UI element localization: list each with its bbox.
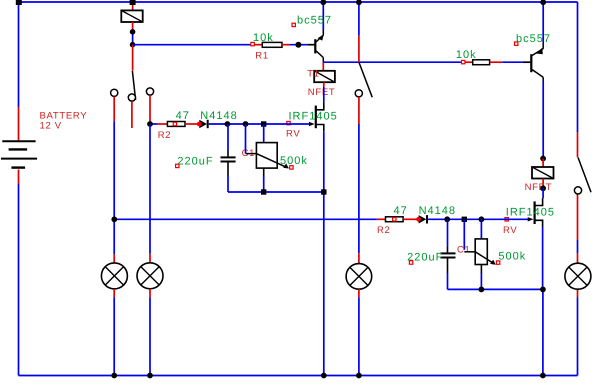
pin marker bc557 (right)	[515, 42, 518, 45]
wire left rail (battery column)	[18, 2, 20, 376]
label R1	[255, 50, 269, 61]
wire M1 source to node	[323, 131, 325, 192]
junction pot top (right)	[479, 216, 485, 222]
switch SW2 contact circle	[355, 90, 362, 97]
relay T1 coil	[314, 71, 335, 82]
switch contact circle left	[111, 89, 118, 96]
label 500k (right)	[498, 251, 526, 263]
label N4148 (right)	[419, 205, 456, 217]
svg-text:500k: 500k	[498, 251, 526, 263]
junction bottom rail lamp L3	[356, 373, 362, 379]
pin marker R1	[251, 42, 254, 45]
svg-text:12 V: 12 V	[40, 121, 62, 132]
wire switch node to R2 (y=124)	[150, 123, 167, 125]
label N4148 (left)	[200, 110, 237, 122]
label R2 (left)	[158, 130, 172, 141]
relay K2 coil	[532, 159, 554, 189]
wire D2 to M2 gate	[428, 218, 528, 220]
switch SW3 lever (right)	[578, 157, 591, 192]
label 10k (right)	[456, 49, 477, 61]
wire right contact down to node	[149, 95, 151, 124]
junction switch node	[147, 121, 153, 127]
label NFET (right)	[525, 182, 553, 193]
capacitor C1 220uF (left)	[221, 124, 236, 192]
switch SW3 contact circle	[574, 187, 581, 194]
junction below relay K2	[540, 185, 546, 191]
svg-text:220uF: 220uF	[177, 156, 213, 168]
junction below relay K1 (lower)	[130, 42, 136, 48]
wire right rail	[577, 2, 579, 376]
wire Q1 collector to relay T1	[322, 62, 324, 71]
capacitor C2 220uF (right)	[440, 219, 455, 289]
svg-text:10k: 10k	[253, 32, 274, 44]
junction bottom rail M1 source	[321, 373, 327, 379]
junction M2 source node	[540, 287, 546, 293]
wire stub below middle contact	[131, 101, 133, 128]
lamp L1	[101, 263, 127, 376]
lamp L3	[346, 264, 372, 376]
junction pot wiper top (right)	[462, 217, 467, 222]
junction top rail Q1 emitter	[320, 0, 326, 5]
svg-text:IRF1405: IRF1405	[506, 206, 555, 218]
wire SW2 to lamp L3	[358, 97, 360, 264]
label RV (right)	[503, 225, 517, 236]
junction lamp L1 node	[111, 216, 117, 222]
pin marker R2 (left)	[173, 122, 176, 125]
svg-text:R2: R2	[377, 225, 391, 236]
junction top rail SW2	[356, 0, 362, 5]
svg-text:47: 47	[176, 110, 190, 122]
pin marker bc557 (left)	[292, 23, 295, 26]
svg-text:N4148: N4148	[419, 205, 456, 217]
transistor Q1 bc557	[314, 2, 324, 62]
junction top rail relay K1	[130, 0, 136, 5]
label T1	[307, 69, 320, 80]
pin marker RV (left)	[287, 121, 290, 124]
wire coil node to R1 and Q1 base (y=45)	[133, 44, 252, 46]
svg-text:N4148: N4148	[200, 110, 237, 122]
wire M2 source to node	[542, 227, 544, 289]
label C1 (left)	[242, 148, 256, 159]
junction top rail left corner	[16, 0, 22, 5]
wire 10k to Q3 base	[490, 61, 531, 63]
junction bottom rail M2 source	[540, 373, 546, 379]
svg-text:R2: R2	[158, 130, 172, 141]
junction bottom rail lamp L1	[111, 373, 117, 379]
svg-text:10k: 10k	[456, 49, 477, 61]
label 500k (left)	[280, 155, 308, 167]
label bc557 (left)	[297, 15, 332, 27]
wire Q1 collector to Q3 base (y=62)	[323, 61, 472, 63]
switch contact circle right	[146, 88, 153, 95]
switch contact circle middle	[128, 94, 135, 101]
MOSFET M1 IRF1405	[309, 106, 324, 132]
label 220uF (right)	[407, 252, 443, 264]
wire M2 source node to bottom rail	[542, 289, 544, 375]
wire relay K2 to MOSFET M2 drain	[535, 188, 543, 205]
label battery name	[40, 111, 88, 132]
MOSFET M2 IRF1405 (right)	[528, 201, 543, 227]
svg-text:R1: R1	[255, 50, 269, 61]
label 220uF (left)	[177, 156, 213, 168]
pin marker 220uF (right)	[409, 261, 412, 264]
label NFET (left)	[308, 87, 336, 98]
junction above relay K2	[540, 156, 546, 162]
junction capacitor C2 top (right)	[444, 216, 450, 222]
label C1 (right)	[457, 245, 471, 256]
wire pot/cap bottom to M2 source (y=289.4)	[448, 288, 543, 290]
wire D1 to M1 gate	[209, 123, 310, 125]
junction bottom rail lamp L2	[147, 373, 153, 379]
wire Q3 collector down to relay K2	[542, 82, 544, 159]
pin marker pot wiper (left)	[290, 166, 293, 169]
diode D1 N4148 (left)	[197, 120, 209, 128]
diode D2 N4148 (right)	[416, 215, 428, 223]
switch SW2 feed wire	[358, 2, 360, 62]
wire relay K1 pole down to switch	[132, 45, 134, 71]
resistor R1 10k (left)	[262, 42, 282, 47]
wire R2 to diode D2	[403, 218, 419, 220]
junction pot wiper top (left)	[243, 121, 249, 127]
lamp L2	[137, 124, 163, 376]
label 47 (left)	[176, 110, 190, 122]
pin marker R1 (right)	[462, 60, 465, 63]
label bc557 (right)	[516, 33, 551, 45]
junction M1 source node	[321, 189, 326, 194]
wire R1 to Q1 base	[282, 44, 315, 46]
pin marker R2 (right)	[393, 218, 396, 221]
wire top rail	[19, 1, 578, 3]
wire pot/cap bottom to M1 source (y=192)	[228, 191, 324, 193]
svg-text:bc557: bc557	[516, 33, 551, 45]
lamp L4	[565, 263, 591, 289]
junction below relay K1 (upper)	[130, 29, 136, 35]
wire left contact down to lamp L1	[113, 97, 115, 264]
junction top rail Q3 emitter	[540, 0, 546, 5]
resistor R2 47 (right)	[386, 217, 404, 222]
switch lever relay K1	[132, 71, 135, 100]
pin marker 220uF (left)	[176, 164, 179, 167]
label IRF1405 (right)	[506, 206, 555, 218]
label 10k (left)	[253, 32, 274, 44]
wire R2 to diode D1	[185, 123, 199, 125]
svg-text:RV: RV	[286, 128, 300, 139]
label RV (left)	[286, 128, 300, 139]
relay K1 coil (top left)	[121, 3, 142, 45]
label IRF1405 (left)	[289, 111, 338, 123]
transistor Q3 bc557 (right)	[530, 2, 543, 82]
svg-text:NFET: NFET	[525, 182, 553, 193]
wire lamp node to R2 (y=219)	[114, 218, 385, 220]
resistor R1 10k (right)	[473, 60, 490, 65]
svg-text:T1: T1	[307, 69, 320, 80]
potentiometer RV 500k (right)	[464, 219, 495, 289]
pin marker RV (right)	[505, 218, 508, 221]
battery BATTERY 12V	[1, 141, 37, 167]
junction on Q1 base wire	[295, 42, 301, 48]
junction capacitor C1 top (left)	[225, 121, 231, 127]
pin marker pot wiper (right)	[496, 261, 499, 264]
svg-text:bc557: bc557	[297, 15, 332, 27]
label R2 (right)	[377, 225, 391, 236]
label 47 (right)	[394, 205, 408, 217]
junction pot bottom (left)	[261, 189, 266, 194]
junction pot bottom (right)	[479, 287, 485, 293]
svg-text:IRF1405: IRF1405	[289, 111, 338, 123]
potentiometer RV 500k (left)	[246, 124, 289, 192]
switch SW2 lever	[359, 62, 372, 97]
junction pot top (left)	[261, 121, 266, 126]
svg-text:47: 47	[394, 205, 408, 217]
wire marker to R1	[254, 44, 262, 46]
wire bottom rail	[19, 375, 578, 377]
wire relay T1 to MOSFET M1 drain	[317, 82, 324, 110]
svg-text:NFET: NFET	[308, 87, 336, 98]
svg-text:RV: RV	[503, 225, 517, 236]
svg-text:500k: 500k	[280, 155, 308, 167]
wire M1 source node to bottom rail	[323, 192, 325, 376]
resistor R2 47 (left)	[167, 122, 185, 127]
